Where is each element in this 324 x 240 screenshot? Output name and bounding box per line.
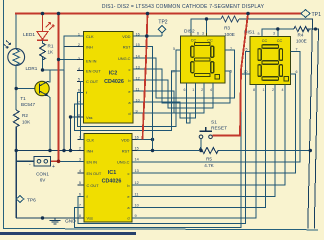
svg-text:R3: R3 <box>224 26 230 31</box>
node S1 leg <box>199 149 202 152</box>
wire IC1 p13 to DIS1 right bottom <box>132 74 296 173</box>
svg-text:1K: 1K <box>48 50 55 55</box>
svg-text:R2: R2 <box>22 113 28 118</box>
svg-text:4.7K: 4.7K <box>204 163 214 168</box>
IC1 pin numbers left <box>79 136 81 218</box>
svg-text:5: 5 <box>78 78 80 82</box>
svg-text:LED1: LED1 <box>23 32 35 38</box>
svg-text:13: 13 <box>135 169 139 173</box>
wire IC2 p12 to DIS2 bottom 4 <box>133 80 213 108</box>
node vss stub <box>69 115 72 118</box>
svg-text:RESET: RESET <box>211 126 227 132</box>
IC2 right pin labels <box>118 34 131 116</box>
svg-text:5: 5 <box>79 181 81 185</box>
svg-text:UNG.C: UNG.C <box>118 56 131 61</box>
transistor T1 <box>20 81 49 107</box>
svg-text:TP1: TP1 <box>312 12 322 18</box>
wire S1 left leg <box>200 139 202 151</box>
node rail-reset junction <box>246 12 250 16</box>
svg-text:+: + <box>52 164 55 170</box>
svg-text:7: 7 <box>296 48 298 52</box>
wire R2 to ground run <box>15 129 17 218</box>
svg-text:b: b <box>128 78 130 83</box>
node emitter bus <box>48 149 51 152</box>
svg-text:C OUT: C OUT <box>87 183 100 188</box>
wire IC2 p11 to DIS2 bottom 3 <box>133 83 204 113</box>
node IC2 VDD red <box>145 34 149 38</box>
svg-text:b: b <box>127 183 129 188</box>
svg-text:EN OUT: EN OUT <box>86 69 101 74</box>
svg-text:d: d <box>128 111 130 116</box>
resistor R1 <box>40 43 54 60</box>
DIS1 7-segment glyph <box>258 45 289 81</box>
wire R1 to collector node <box>43 57 51 82</box>
wire IC1 p9 to DIS1 bottom 1 <box>132 85 256 218</box>
wire R4 to ground column <box>308 29 319 229</box>
svg-text:8: 8 <box>79 214 81 218</box>
svg-text:DIS1- DIS2 = LTS543 COMMON CAT: DIS1- DIS2 = LTS543 COMMON CATHODE 7-SEG… <box>102 4 265 10</box>
svg-text:8: 8 <box>78 114 80 118</box>
wire red reset branch <box>212 14 248 136</box>
wire EN IN tie to VDD <box>59 59 85 61</box>
svg-text:R5: R5 <box>206 157 212 162</box>
wire IC2 COUT to IC1 CLK <box>81 82 85 140</box>
wire VDD rail <box>15 13 301 15</box>
bottom dark band <box>0 232 136 235</box>
svg-text:a: a <box>258 32 260 36</box>
IC2 pin stubs <box>77 36 140 117</box>
svg-text:4: 4 <box>210 88 212 92</box>
svg-text:INH: INH <box>86 45 93 50</box>
LDR1 <box>4 41 38 72</box>
IC1 right pin labels <box>117 137 130 220</box>
svg-text:5: 5 <box>173 47 175 51</box>
wire reset line <box>153 150 311 152</box>
test point TP2 <box>158 20 168 37</box>
title text <box>102 4 265 10</box>
svg-text:EN IN: EN IN <box>86 59 97 64</box>
frame left border <box>3 0 5 229</box>
node R4 end <box>314 27 317 30</box>
IC1 pin numbers right <box>135 136 139 218</box>
svg-text:100E: 100E <box>296 39 307 44</box>
resistor R2 <box>13 110 31 129</box>
IC1 left pin labels <box>87 137 102 220</box>
DIS1 pin numbers <box>244 32 298 93</box>
svg-text:EN OUT: EN OUT <box>87 171 102 176</box>
IC2 CD4026 <box>84 32 134 124</box>
svg-text:TP6: TP6 <box>27 197 36 203</box>
wire IC1 RST stub <box>132 150 153 152</box>
svg-text:6: 6 <box>79 192 81 196</box>
svg-text:3: 3 <box>273 32 275 36</box>
DIS2 pin numbers <box>171 32 232 93</box>
IC1 CD4026 <box>84 134 132 223</box>
node rail-CON1 junction <box>57 12 61 16</box>
ground symbol <box>50 218 77 225</box>
IC2 pin numbers right <box>136 33 140 114</box>
svg-text:RST: RST <box>123 45 131 50</box>
svg-text:4: 4 <box>282 88 284 92</box>
svg-text:4: 4 <box>79 169 81 173</box>
node vss bus <box>69 149 72 152</box>
test point TP6 <box>16 196 36 204</box>
svg-text:e: e <box>128 89 130 94</box>
svg-text:S1: S1 <box>211 120 217 126</box>
svg-text:1: 1 <box>263 88 265 92</box>
display DIS2 <box>181 29 226 84</box>
wire red drop IC column <box>143 14 148 140</box>
wire IC2 p9 to DIS2 bottom 1 <box>133 83 190 123</box>
svg-text:10K: 10K <box>22 120 31 125</box>
svg-text:Vss: Vss <box>87 216 94 221</box>
node rail-LED junction <box>41 12 45 16</box>
svg-text:2: 2 <box>78 43 80 47</box>
DIS2 7-segment glyph <box>191 42 220 79</box>
svg-text:CLK: CLK <box>87 137 95 142</box>
wire IC1 p7 to DIS1 left bottom <box>75 74 251 227</box>
svg-text:CD4026: CD4026 <box>104 79 124 85</box>
frame bottom border <box>4 229 319 230</box>
wire LDR to base / R2 vertical <box>15 65 17 110</box>
svg-text:T1: T1 <box>20 96 26 101</box>
svg-text:c: c <box>128 171 130 176</box>
svg-text:1: 1 <box>192 88 194 92</box>
wire IC2 p6 to DIS2 left top <box>78 50 181 127</box>
node inh bus <box>62 149 65 152</box>
test point TP1 <box>301 10 321 18</box>
svg-text:2: 2 <box>79 147 81 151</box>
svg-text:DIS2: DIS2 <box>184 29 195 35</box>
node DIS2 CC junction <box>205 17 208 20</box>
DIS2 pin stubs top <box>191 33 207 36</box>
svg-text:R4: R4 <box>298 33 304 38</box>
svg-text:c: c <box>129 67 131 72</box>
node CON1 red <box>57 160 61 164</box>
wire IC2 INH down <box>64 47 84 151</box>
resistor R4 <box>294 26 310 43</box>
wire red drop to CON1 <box>58 14 60 162</box>
svg-text:10: 10 <box>135 203 139 207</box>
wire IC2 p14 to DIS2 right top <box>133 50 235 98</box>
wire R3 to ground column <box>239 19 313 229</box>
wire IC2 VDD stub <box>133 35 147 37</box>
svg-text:2: 2 <box>272 88 274 92</box>
node rail-IC red junction <box>146 12 150 16</box>
svg-text:CD4026: CD4026 <box>102 179 122 185</box>
wire IC2 p13 to DIS2 right bottom <box>133 69 230 103</box>
wire IC1 p6 to DIS1 left top <box>78 52 250 224</box>
svg-text:UNG.C: UNG.C <box>117 160 130 165</box>
svg-text:VDD: VDD <box>121 137 129 142</box>
node EN IN on red <box>57 58 60 61</box>
svg-text:16: 16 <box>135 136 139 140</box>
wire IC2 p10 to DIS2 bottom 2 <box>133 83 195 118</box>
svg-text:5: 5 <box>246 48 248 52</box>
svg-text:RST: RST <box>122 149 130 154</box>
wire IC1 EN IN tie <box>59 160 85 162</box>
node GND junction <box>41 216 44 219</box>
svg-text:14: 14 <box>135 158 139 162</box>
LED1 <box>23 14 54 41</box>
svg-text:CLK: CLK <box>86 34 94 39</box>
resistor R3 <box>221 16 239 37</box>
wire LDR branch down from rail <box>15 14 17 50</box>
svg-text:CC: CC <box>262 39 268 43</box>
wire IC1 p11 to DIS1 bottom 3 <box>132 85 275 197</box>
wire IC1 p12 to DIS1 bottom 4 <box>132 85 285 186</box>
svg-text:6: 6 <box>296 70 298 74</box>
node IC1 vdd column <box>151 138 154 141</box>
svg-text:8: 8 <box>253 88 255 92</box>
svg-text:e: e <box>127 194 129 199</box>
node ground bus left <box>15 149 18 152</box>
IC1 pin stubs <box>78 140 138 218</box>
svg-text:d: d <box>127 216 129 221</box>
wire IC2 RST to reset line <box>133 47 153 151</box>
wire ground run bottom <box>16 217 84 219</box>
svg-text:LDR1: LDR1 <box>26 66 38 71</box>
svg-text:EN IN: EN IN <box>87 160 98 165</box>
switch S1 <box>199 120 227 139</box>
display DIS1 <box>244 30 291 85</box>
svg-text:6: 6 <box>184 88 186 92</box>
svg-text:100E: 100E <box>224 32 235 37</box>
node RST line <box>151 149 154 152</box>
wire IC1 p14 to DIS1 right top <box>132 52 300 163</box>
svg-text:2: 2 <box>201 88 203 92</box>
node DIS1 CC junction <box>276 27 279 30</box>
svg-text:9: 9 <box>135 214 137 218</box>
wire IC2 CLK from collector <box>50 36 84 70</box>
svg-text:6: 6 <box>197 32 199 36</box>
wire IC1 VDD stub <box>132 139 153 141</box>
svg-text:CON1: CON1 <box>36 172 49 177</box>
svg-text:Vss: Vss <box>86 115 93 120</box>
svg-text:C OUT: C OUT <box>86 79 99 84</box>
svg-text:TP2: TP2 <box>158 20 167 26</box>
node R1 bottom <box>41 68 44 71</box>
svg-text:IC2: IC2 <box>109 71 117 77</box>
svg-text:INH: INH <box>87 149 94 154</box>
wire IC1 p10 to DIS1 bottom 2 <box>132 85 266 208</box>
svg-text:4: 4 <box>78 67 80 71</box>
svg-text:VDD: VDD <box>122 34 130 39</box>
svg-text:BC547: BC547 <box>21 102 35 107</box>
wire ground bus <box>16 150 84 152</box>
connector CON1 <box>16 157 58 183</box>
wire emitter down <box>48 96 51 151</box>
svg-text:15: 15 <box>135 147 139 151</box>
wire IC2 p7 to DIS2 left bottom <box>75 71 181 131</box>
wire TP2 stub <box>146 35 162 37</box>
wire DIS2 CC pins to R3 <box>191 19 221 36</box>
svg-text:6: 6 <box>78 89 80 93</box>
node reset line right <box>309 149 312 152</box>
svg-text:R1: R1 <box>48 44 54 49</box>
svg-text:7: 7 <box>79 203 81 207</box>
node base junction <box>15 87 18 90</box>
wire IC2 Vss down <box>71 117 85 151</box>
svg-text:IC1: IC1 <box>108 170 116 176</box>
svg-text:11: 11 <box>135 192 139 196</box>
svg-text:12: 12 <box>135 181 139 185</box>
svg-text:3: 3 <box>78 57 80 61</box>
wire LED to R1 <box>42 40 44 43</box>
IC2 pin numbers left <box>78 33 80 118</box>
svg-text:6V: 6V <box>40 178 47 183</box>
resistor R5 <box>199 148 218 169</box>
IC2 left pin labels <box>86 34 101 120</box>
wire base <box>16 88 39 90</box>
wire DIS1 CC pins to R4 <box>262 29 294 37</box>
svg-text:3: 3 <box>202 32 204 36</box>
svg-text:CC: CC <box>277 39 283 43</box>
